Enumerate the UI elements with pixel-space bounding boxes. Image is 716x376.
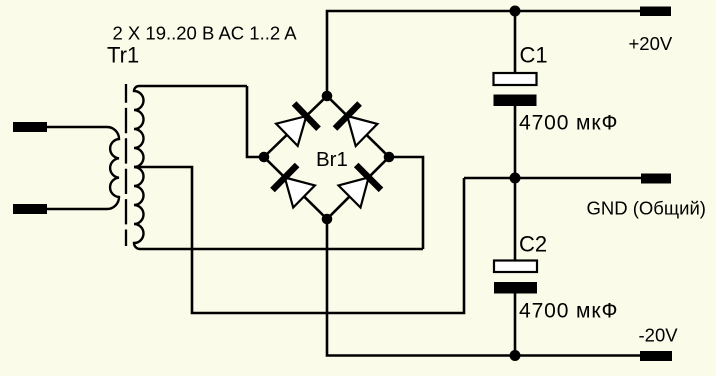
wire: GND rail xyxy=(464,177,641,180)
capacitor C2 negative plate xyxy=(494,282,537,294)
terminal: +20V output bar xyxy=(640,7,671,17)
capacitor C1 negative plate xyxy=(494,95,537,107)
diode D1 (left node to top node) triangle xyxy=(276,116,306,146)
wire: secondary top end to bridge left node xyxy=(247,86,264,157)
terminal: primary input top bar xyxy=(13,122,47,132)
transformer Tr1 primary winding xyxy=(107,127,119,209)
svg-text:Br1: Br1 xyxy=(316,148,348,171)
node: -V rail junction xyxy=(510,350,521,361)
diode D4 (bottom node to right node) triangle xyxy=(339,177,369,207)
node: +V rail junction xyxy=(510,6,521,17)
wire: C2 top lead xyxy=(514,178,517,261)
wire: bridge top to +V rail xyxy=(327,11,640,96)
node: bridge left junction xyxy=(259,152,270,163)
wire: primary top lead xyxy=(47,126,107,129)
transformer Tr1 core (dashed) xyxy=(125,84,127,246)
wire: C1 bottom lead xyxy=(514,106,517,178)
wire: C1 top lead xyxy=(514,11,517,73)
wire: secondary bottom end up to bridge right node xyxy=(389,157,423,249)
diode D2 (right node to top node) triangle xyxy=(347,116,377,146)
bridge rectifier Br1 edges xyxy=(264,96,389,219)
wire: center tap to ground run xyxy=(134,167,464,313)
wire: C2 bottom lead xyxy=(514,294,517,356)
node: bridge bottom junction xyxy=(322,214,333,225)
transformer Tr1 secondary top winding xyxy=(134,86,247,167)
svg-text:Tr1: Tr1 xyxy=(107,43,139,68)
wire: bridge bottom to -V rail xyxy=(327,219,640,356)
transformer Tr1 secondary bottom winding xyxy=(134,167,423,249)
node: GND rail junction xyxy=(510,173,521,184)
node: bridge right junction xyxy=(384,152,395,163)
node: bridge top junction xyxy=(322,91,333,102)
svg-text:2 X 19..20 B AC 1..2 A: 2 X 19..20 B AC 1..2 A xyxy=(113,23,298,44)
capacitor C2 positive plate xyxy=(494,261,537,273)
terminal: GND output bar xyxy=(641,174,671,184)
svg-text:C1: C1 xyxy=(520,43,548,68)
diode D4 cathode bar xyxy=(356,165,381,190)
svg-text:GND (Общий): GND (Общий) xyxy=(587,198,706,219)
svg-text:-20V: -20V xyxy=(639,325,679,346)
svg-text:C2: C2 xyxy=(519,232,547,257)
capacitor C1 positive plate xyxy=(494,73,537,85)
diode D3 (bottom node to left node) triangle xyxy=(285,178,315,208)
diode D2 cathode bar xyxy=(335,104,360,129)
svg-text:+20V: +20V xyxy=(629,33,673,54)
diode D3 cathode bar xyxy=(273,165,298,190)
svg-text:4700 мкФ: 4700 мкФ xyxy=(519,300,618,323)
terminal: -20V output bar xyxy=(640,351,672,361)
svg-text:4700 мкФ: 4700 мкФ xyxy=(519,112,618,135)
diode D1 cathode bar xyxy=(294,104,318,129)
terminal: primary input bottom bar xyxy=(13,204,47,214)
wire: primary bottom lead xyxy=(47,208,107,211)
